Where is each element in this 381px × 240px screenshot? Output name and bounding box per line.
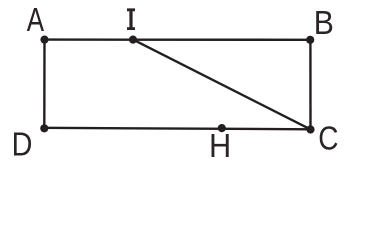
node H <box>218 124 226 132</box>
wire <box>43 40 46 129</box>
svg-text:D: D <box>12 126 33 163</box>
label I <box>127 8 135 30</box>
wire <box>309 40 312 130</box>
svg-text:C: C <box>318 119 338 156</box>
svg-text:H: H <box>209 127 231 164</box>
svg-text:B: B <box>314 4 334 41</box>
node C <box>306 125 314 133</box>
wire <box>133 40 311 130</box>
wire <box>44 128 310 130</box>
svg-text:A: A <box>27 1 44 38</box>
node B <box>306 36 314 44</box>
node D <box>40 124 48 132</box>
node A <box>40 36 48 44</box>
wire <box>45 38 311 41</box>
node I <box>129 36 137 44</box>
